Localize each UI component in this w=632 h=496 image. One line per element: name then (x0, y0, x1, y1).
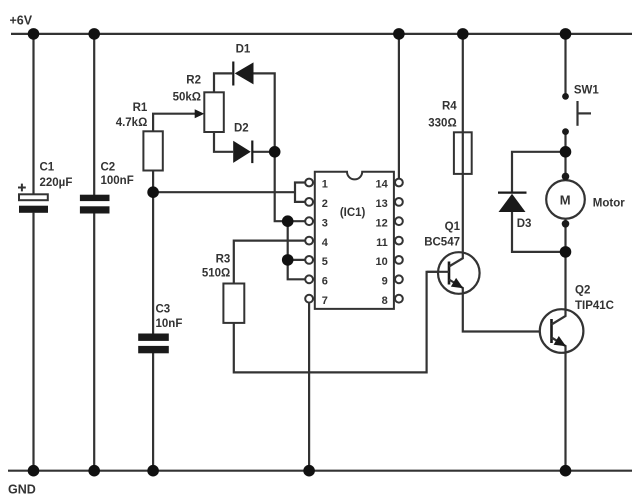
IC1 pin 8 (382, 295, 403, 307)
wire pin3 node to pin5 node (287, 221, 289, 260)
svg-text:+6V: +6V (10, 14, 33, 28)
svg-text:C3: C3 (156, 304, 171, 316)
wire D1 cathode to node B (254, 73, 275, 151)
svg-text:12: 12 (376, 217, 388, 229)
IC1 pin 2 (305, 198, 328, 210)
wire pin5 node to pin6 (288, 260, 306, 279)
resistor R1 (116, 102, 163, 171)
svg-text:TIP41C: TIP41C (575, 300, 614, 312)
svg-text:11: 11 (376, 237, 388, 249)
svg-text:C2: C2 (101, 161, 116, 173)
wire R3 bottom to Q1 base (234, 272, 449, 373)
svg-text:5: 5 (322, 256, 328, 268)
svg-text:SW1: SW1 (574, 85, 600, 97)
wire node A to IC1 pins 1-2 bracket (153, 191, 295, 193)
svg-text:D2: D2 (234, 122, 249, 134)
svg-text:4: 4 (322, 237, 329, 249)
svg-text:R4: R4 (442, 101, 457, 113)
svg-text:10nF: 10nF (156, 318, 183, 330)
svg-text:9: 9 (382, 276, 388, 288)
IC1 pin 12 (376, 217, 403, 229)
svg-text:R2: R2 (186, 75, 201, 87)
svg-text:R1: R1 (133, 102, 148, 114)
node GND/pin7 (303, 465, 315, 477)
wire pin5 stub (288, 259, 306, 261)
IC1 pin 14 (376, 179, 403, 191)
svg-text:8: 8 (382, 295, 388, 307)
svg-text:D1: D1 (236, 44, 251, 56)
svg-text:D3: D3 (517, 218, 532, 230)
node +6V/R4 (457, 28, 469, 40)
wire SW1 to node C (564, 132, 566, 152)
svg-text:10: 10 (376, 256, 388, 268)
wire node C to motor top (564, 152, 566, 181)
svg-text:13: 13 (376, 198, 388, 210)
svg-text:BC547: BC547 (424, 236, 460, 248)
svg-text:220µF: 220µF (40, 177, 73, 189)
IC1 pin 5 (305, 256, 328, 268)
IC1 pin 11 (376, 237, 403, 249)
svg-text:510Ω: 510Ω (202, 267, 230, 279)
svg-text:M: M (560, 192, 571, 207)
diode D3 (498, 193, 531, 230)
diode D1 (233, 44, 253, 86)
wire C2 branch top (93, 34, 95, 195)
capacitor C1 (18, 161, 72, 213)
IC1 pin 13 (376, 198, 403, 210)
node +6V/SW1 (560, 28, 572, 40)
wire C3 bottom to ground (152, 353, 154, 471)
IC1 pin 3 (305, 217, 328, 229)
svg-text:4.7kΩ: 4.7kΩ (116, 117, 148, 129)
IC1 pin 6 (305, 275, 328, 287)
IC1 pin 1 (305, 179, 328, 191)
wire C1 branch top (32, 34, 34, 195)
svg-text:Motor: Motor (593, 197, 625, 209)
node GND/Q2 (560, 465, 572, 477)
svg-text:3: 3 (322, 217, 328, 229)
motor M (546, 173, 625, 228)
IC1 pin 4 (305, 237, 329, 249)
transistor Q2 (540, 252, 614, 471)
IC U1 body (315, 172, 394, 309)
capacitor C3 (138, 304, 182, 354)
node C SW1/D3/motor (560, 146, 572, 158)
svg-text:R3: R3 (216, 253, 231, 265)
ground rail (8, 470, 632, 472)
node pin5 (282, 254, 294, 266)
wire R2 bottom to D2 (214, 132, 233, 152)
resistor R3 (202, 253, 244, 323)
IC1 pin 10 (376, 256, 403, 268)
wire C2 branch bottom (93, 213, 95, 471)
node pin3 (282, 215, 294, 227)
node D D3/motor/Q2 (560, 246, 572, 258)
svg-text:100nF: 100nF (101, 175, 134, 187)
svg-text:C1: C1 (40, 161, 55, 173)
wire R2 top to D1 (214, 73, 232, 92)
svg-text:GND: GND (8, 482, 36, 496)
svg-text:Q1: Q1 (445, 221, 461, 233)
diode D2 (233, 122, 252, 163)
wire node A to C3 (152, 192, 154, 333)
capacitor C2 (80, 161, 134, 213)
potentiometer R2 (173, 75, 224, 133)
node GND/C1 (28, 465, 40, 477)
node GND/C3 (147, 465, 159, 477)
wire pin14 to +6V (398, 34, 400, 183)
IC1 pin 7 (305, 295, 328, 307)
wire C1 branch bottom (32, 213, 34, 471)
svg-text:6: 6 (322, 276, 328, 288)
wire D3 anode to node D (512, 212, 566, 252)
node A R1/C3/IC (147, 186, 159, 198)
wire motor bottom to node D (564, 218, 566, 252)
wire +6V to R4 (462, 34, 464, 132)
wire R2 wiper to R1 (153, 114, 199, 132)
wire IC1 pins 1-2 bracket (295, 183, 305, 202)
svg-text:14: 14 (376, 179, 389, 191)
wire node C to D3 (512, 152, 566, 193)
svg-text:2: 2 (322, 198, 328, 210)
wire R3 top to pin4 (234, 241, 305, 284)
wire pin7 to ground (308, 299, 310, 471)
svg-text:Q2: Q2 (575, 285, 590, 297)
node +6V/pin14 (393, 28, 405, 40)
wire +6V to SW1 (564, 34, 566, 97)
node +6V/C2 (88, 28, 100, 40)
wire node B down to pin3 (275, 152, 306, 221)
svg-text:1: 1 (322, 179, 328, 191)
switch SW1 (562, 85, 599, 135)
wire D2 cathode to node B (252, 151, 274, 153)
+6V power rail (11, 33, 632, 35)
svg-text:50kΩ: 50kΩ (173, 92, 201, 104)
IC1 pin 9 (382, 275, 403, 287)
node GND/C2 (88, 465, 100, 477)
svg-text:330Ω: 330Ω (428, 118, 456, 130)
svg-text:7: 7 (322, 295, 328, 307)
svg-text:(IC1): (IC1) (340, 207, 366, 219)
wire R1 bottom to node A (152, 171, 154, 193)
resistor R4 (428, 101, 471, 174)
node B D1/D2 (269, 146, 281, 158)
transistor Q1 (424, 132, 551, 331)
node +6V/C1 (28, 28, 40, 40)
